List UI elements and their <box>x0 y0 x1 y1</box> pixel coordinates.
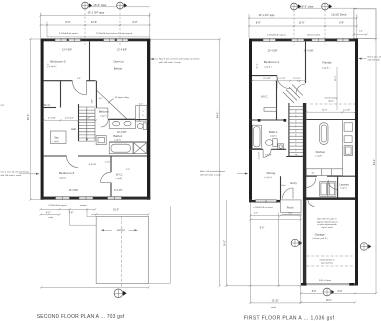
svg-text:Bedroom-2: Bedroom-2 <box>50 60 66 64</box>
bath-2 tub <box>109 143 133 154</box>
bottom exterior wall (second floor) <box>41 197 151 200</box>
wall laundry west <box>337 176 339 200</box>
svg-text:gypsum drywall. typical: gypsum drywall. typical <box>317 220 338 223</box>
bath-2 vanity counter <box>109 119 135 128</box>
svg-text:Stor: Stor <box>54 135 59 139</box>
stair diagonal tread 2 <box>286 90 297 101</box>
svg-text:2'-0": 2'-0" <box>254 213 259 215</box>
wall hall/laundry north <box>306 175 317 177</box>
top wall window F4 <box>337 38 349 41</box>
garage door line <box>307 283 350 285</box>
roof-below dashed centerline <box>120 216 122 288</box>
svg-text:Note: 5/8" fire-code 'X': Note: 5/8" fire-code 'X' <box>317 218 337 221</box>
inner vertical dim line x=226.5 <box>226 200 228 286</box>
bottom wall window W6 <box>79 197 93 200</box>
grid bubble B (garage right) <box>360 243 368 251</box>
svg-text:Bath-2: Bath-2 <box>114 134 123 138</box>
dim row over hall <box>44 119 96 121</box>
svg-text:9'-0": 9'-0" <box>260 228 265 230</box>
stair diagonal tread 1 <box>283 92 294 103</box>
svg-text:min. 3 1/2 x 14 unit wall furr: min. 3 1/2 x 14 unit wall furring <box>1 170 30 173</box>
outer vertical dim 44'-2 (left outer) <box>219 39 221 286</box>
svg-text:26'-0" clear: 26'-0" clear <box>301 4 314 8</box>
garage overhead door dashed 2 <box>307 265 355 267</box>
porch dim row 1 <box>250 215 300 217</box>
svg-text:Porch: Porch <box>287 205 294 209</box>
svg-text:Entry: Entry <box>290 181 297 185</box>
dim extension right (x=356.8) <box>356 14 358 38</box>
balcony west line <box>95 81 97 108</box>
deck outline 12x10 <box>354 9 376 39</box>
interior wall Bedroom-3 / WIC divider <box>110 156 112 172</box>
svg-text:4'-10 1/2": 4'-10 1/2" <box>65 117 74 119</box>
interior wall Bedroom-2 south <box>44 80 73 82</box>
svg-text:18' high ceiling: 18' high ceiling <box>114 97 129 99</box>
bath-2 shower <box>134 143 147 154</box>
bath-2 wall above tub <box>109 141 147 143</box>
svg-text:with 2x8 studs 1 comp: with 2x8 studs 1 comp <box>1 174 22 177</box>
svg-text:30'-0": 30'-0" <box>26 114 30 121</box>
svg-text:at walls adjoining with: at walls adjoining with <box>317 223 336 226</box>
balcony corner line <box>107 108 109 119</box>
right exterior wall (first floor) <box>355 39 358 286</box>
outer vertical dim line 30'-0 (left of second floor) <box>30 39 32 200</box>
svg-text:( clg 9 (: ( clg 9 ( <box>49 66 57 68</box>
wall Bath-1 north <box>249 119 286 121</box>
door arc Bedroom-1 <box>277 76 290 89</box>
kitchen island <box>320 123 328 145</box>
svg-text:open position: open position <box>321 261 333 264</box>
wall Kitchen north <box>306 119 355 121</box>
svg-text:W.I.C.: W.I.C. <box>44 103 51 107</box>
svg-text:2-2/6x4/6 dh egress: 2-2/6x4/6 dh egress <box>267 33 287 36</box>
bath-2 sink 2 <box>124 121 131 126</box>
grid bubble 1 (first floor) with cross <box>291 3 298 10</box>
roof-below arrow right <box>129 229 138 231</box>
stair east stringer <box>94 108 96 141</box>
svg-text:Balcony: Balcony <box>99 110 110 114</box>
svg-text:2-2/6x4/6 dh egress: 2-2/6x4/6 dh egress <box>59 32 79 35</box>
bath-1 corner sink <box>278 144 284 150</box>
svg-text:12'-10": 12'-10" <box>272 301 279 303</box>
note arrow left of first floor <box>237 173 248 175</box>
svg-text:( clg 8 (: ( clg 8 ( <box>59 177 67 179</box>
bottom dim row 2 <box>41 214 60 216</box>
stair diagonal tread 4 <box>292 85 303 96</box>
grid bubble A arrow <box>299 241 302 245</box>
grid dashed line C (x=294) <box>293 10 295 45</box>
dim row kitchen <box>306 111 355 113</box>
svg-text:Bedroom-3: Bedroom-3 <box>59 171 75 175</box>
svg-text:4'-0 3/4": 4'-0 3/4" <box>48 117 56 119</box>
svg-text:clg fire rated: clg fire rated <box>321 226 332 229</box>
svg-text:1'-6": 1'-6" <box>359 31 363 33</box>
svg-text:6'-0 3/4": 6'-0 3/4" <box>114 190 123 192</box>
connector rect-bottom to extension <box>149 282 171 284</box>
svg-text:( clg 8 (: ( clg 8 ( <box>53 141 60 143</box>
svg-text:8'-8": 8'-8" <box>133 21 138 24</box>
stair arrowhead (second floor) <box>86 139 88 142</box>
grid bubble 1F arrow <box>298 4 301 9</box>
note arrow (left wall note) <box>19 173 39 175</box>
kitchen sink right <box>344 136 352 143</box>
svg-text:roof bel: roof bel <box>117 229 125 232</box>
svg-text:25'-1 3/4" appr: 25'-1 3/4" appr <box>88 11 105 15</box>
svg-text:44'-2": 44'-2" <box>216 112 220 119</box>
svg-text:( d'num, part R (: ( d'num, part R ( <box>313 237 328 240</box>
diagonal 18ft-ceiling line <box>97 90 128 119</box>
svg-text:element jamb: element jamb <box>307 33 321 36</box>
door arc Bedroom-3 <box>67 156 79 168</box>
svg-text:4'-2": 4'-2" <box>139 104 143 106</box>
svg-text:( clg 9 (: ( clg 9 ( <box>315 156 322 158</box>
porch dim row 2 <box>250 219 300 221</box>
linen closet by stair <box>96 136 106 145</box>
svg-text:12x10 Deck: 12x10 Deck <box>331 13 347 17</box>
hall door arc B <box>328 180 338 190</box>
bottom dim row 1 (second floor) <box>41 208 95 210</box>
interior wall Bedroom-2 / Open-to-Below divider <box>89 41 91 80</box>
stair west stringer <box>78 104 80 141</box>
stair/garage west wall <box>303 103 306 285</box>
wall post A <box>258 119 261 122</box>
svg-text:8'-0 5/8": 8'-0 5/8" <box>265 154 272 156</box>
interior wall Bedroom-1/Family divider <box>305 41 307 83</box>
svg-text:2'-1 1/2": 2'-1 1/2" <box>278 78 286 80</box>
svg-text:12'-4 5/8": 12'-4 5/8" <box>267 50 277 53</box>
svg-text:8'-8": 8'-8" <box>312 291 317 293</box>
svg-text:4'-0 3/4": 4'-0 3/4" <box>263 78 271 80</box>
svg-text:with 2x8 studs 1 comp: with 2x8 studs 1 comp <box>159 61 181 64</box>
bottom grid bubble arrow <box>123 291 127 296</box>
overall bottom dim line (second floor) <box>41 286 149 288</box>
grid line segment between bubbles <box>89 6 117 8</box>
storage closet (second floor) <box>51 131 67 144</box>
svg-text:2'-10": 2'-10" <box>105 161 111 163</box>
svg-text:( clg 9 (: ( clg 9 ( <box>264 177 272 179</box>
dining window <box>256 200 277 203</box>
svg-text:8'-0": 8'-0" <box>288 213 293 215</box>
bath-1 toilet tank <box>273 139 277 147</box>
laundry washer <box>320 182 328 197</box>
svg-text:window: window <box>80 205 87 207</box>
grid bubble C (garage door) <box>323 288 331 296</box>
wall post B <box>284 119 287 122</box>
svg-text:( clg 8 (: ( clg 8 ( <box>340 188 347 190</box>
svg-text:10'-4 5/8": 10'-4 5/8" <box>69 190 79 192</box>
bottom wall dining (first floor) <box>249 200 281 203</box>
left exterior wall (first floor) <box>249 39 252 200</box>
door arc WIC-2 <box>101 172 111 182</box>
svg-text:Garage: Garage <box>315 233 325 237</box>
svg-text:5'-0": 5'-0" <box>126 169 130 171</box>
svg-text:New 3 1/2 x 14: New 3 1/2 x 14 <box>368 56 381 58</box>
svg-text:12'-8": 12'-8" <box>298 22 304 25</box>
svg-text:flush: flush <box>282 185 286 187</box>
entry door arc <box>283 188 294 199</box>
top wall window F3 <box>312 38 325 41</box>
svg-text:12'-4 5/8": 12'-4 5/8" <box>62 49 72 52</box>
garage entry door arc <box>308 200 315 207</box>
interior wall Bedroom-1 south <box>252 75 277 77</box>
balcony rail <box>96 107 108 109</box>
dim line over entry closets <box>252 80 306 82</box>
wall stair south <box>286 156 303 158</box>
top wall window W3 <box>104 38 116 41</box>
extension line from left-plan wall to 44'-2 dim <box>150 38 219 40</box>
svg-text:8'-8": 8'-8" <box>338 291 343 293</box>
bath-2 north wall / vanity line <box>108 119 147 121</box>
bath-1 toilet bowl <box>266 140 273 146</box>
top exterior wall (first floor) <box>249 39 358 42</box>
svg-text:( clg 8 (: ( clg 8 ( <box>116 178 123 180</box>
bath-2 sink 1 <box>113 121 120 126</box>
garage overhead door dashed 1 <box>307 255 355 257</box>
svg-text:8'-8": 8'-8" <box>256 22 261 25</box>
stair diagonal tread 3 <box>289 87 300 98</box>
svg-text:Kitchen: Kitchen <box>316 150 326 154</box>
svg-text:( clg 9 (: ( clg 9 ( <box>322 67 330 69</box>
svg-text:Bath-1: Bath-1 <box>269 130 278 134</box>
outer dim extension top-left <box>31 38 41 40</box>
grid line segment 2F <box>329 7 357 9</box>
svg-text:9'-8": 9'-8" <box>1 105 5 107</box>
note arrow (LVL header, right of second floor) <box>151 58 158 60</box>
bottom dim row A (first floor) <box>227 285 301 287</box>
stair center rail <box>86 107 88 141</box>
left exterior wall (second floor) <box>41 39 44 200</box>
window header note line <box>47 36 150 38</box>
svg-text:Note: 2x6 stud wall framed: Note: 2x6 stud wall framed <box>200 170 225 173</box>
svg-text:with 5x8 studs 1 camp: with 5x8 studs 1 camp <box>200 174 221 177</box>
stair treads (first floor) <box>289 106 303 108</box>
porch step line <box>282 213 300 215</box>
svg-text:Open to: Open to <box>113 59 124 63</box>
grid bubble C arrow <box>331 290 334 294</box>
family interior dim line <box>336 67 338 110</box>
shaft room (second floor) <box>136 106 147 121</box>
kitchen range <box>344 146 352 156</box>
svg-text:24'-2": 24'-2" <box>224 240 227 246</box>
svg-text:2-2/6x4/6 dh egress: 2-2/6x4/6 dh egress <box>48 204 66 207</box>
svg-text:14 R: 14 R <box>91 99 93 104</box>
svg-text:10'-9": 10'-9" <box>322 109 328 111</box>
svg-text:44'-2": 44'-2" <box>372 159 376 166</box>
dim segments row (first floor) <box>249 25 357 27</box>
svg-text:above: above <box>328 100 334 102</box>
roof-below outline (second floor) <box>96 216 148 283</box>
svg-text:12'-4 5/8": 12'-4 5/8" <box>117 49 127 52</box>
stair dashed guide (first floor) <box>295 110 297 152</box>
interior wall WIC south <box>44 107 56 109</box>
outer dim extension bottom-left <box>31 199 41 201</box>
top wall window W2 <box>69 38 81 41</box>
svg-text:12'-4": 12'-4" <box>257 63 259 69</box>
stair west stringer (1F) <box>288 103 290 157</box>
grid bubble B arrow <box>368 244 371 248</box>
grid line segment 1F <box>298 7 322 9</box>
grid bubble 2 arrow <box>124 3 127 8</box>
connector step line B <box>86 209 88 216</box>
bottom dim row B (first floor) <box>301 292 376 294</box>
stair treads (second floor) <box>79 106 96 108</box>
grid dashed line A (x=85) <box>84 9 86 45</box>
right exterior wall (second floor) <box>147 39 150 200</box>
wall entry/porch <box>280 176 282 200</box>
top wall window F2 <box>292 38 305 41</box>
porch extension line x=300.8 <box>300 213 302 303</box>
svg-text:9'x8' o h door: 9'x8' o h door <box>319 279 332 282</box>
svg-text:a 2/6x2/6 dh w/ trans: a 2/6x2/6 dh w/ trans <box>253 206 272 209</box>
svg-text:W.I.C.: W.I.C. <box>261 96 268 99</box>
svg-text:15'-1 3/4" appr: 15'-1 3/4" appr <box>258 14 274 17</box>
roof-below arrow left <box>101 229 112 231</box>
svg-text:( clg 8 (: ( clg 8 ( <box>270 135 277 137</box>
wall Bath-1 south <box>249 148 263 150</box>
door arc Family <box>296 84 306 94</box>
closet rod WIC-1F <box>264 107 276 111</box>
dim line segments row (second floor) <box>41 24 150 26</box>
deck dim row <box>354 33 367 35</box>
interior wall Bedroom-3 north <box>44 155 67 157</box>
grid bubble 2 (second floor) with cross <box>117 2 124 9</box>
door arc Bath-1 <box>263 149 271 157</box>
svg-text:3'-0": 3'-0" <box>297 81 301 83</box>
svg-text:8'-8": 8'-8" <box>66 21 71 24</box>
bath-1 tub <box>252 125 261 148</box>
garage bottom wall cap right <box>349 283 355 286</box>
interior wall WIC-1F east <box>276 81 278 120</box>
svg-text:12'-8": 12'-8" <box>91 21 97 24</box>
svg-text:18'-0": 18'-0" <box>326 300 332 302</box>
bottom wall window W7 <box>108 197 122 200</box>
note arrow (right of first floor) <box>359 58 367 60</box>
porch extension line x=278.7 <box>278 213 280 286</box>
grid bubble 2 (first floor) with cross <box>322 3 329 10</box>
svg-text:4'-2": 4'-2" <box>46 212 51 214</box>
leader 18' ceiling <box>109 99 114 104</box>
top wall window W4 <box>117 38 129 41</box>
extension line to neighbour dim <box>169 206 171 283</box>
grid bubble 1 (second floor) with cross <box>82 2 89 9</box>
svg-text:Dining: Dining <box>267 171 276 175</box>
grid bubble 2F arrow <box>329 4 332 9</box>
outer vertical dim right (x=376) <box>375 39 377 293</box>
svg-text:with 2x8 studs: with 2x8 studs <box>368 58 381 61</box>
svg-text:Bedroom-1: Bedroom-1 <box>264 60 280 64</box>
grid dashed line B (x=120) <box>119 9 121 45</box>
grid dashed line D (x=325) <box>324 10 326 45</box>
dim extension left (x=249) <box>248 14 250 38</box>
kitchen counter bottom band <box>306 169 342 176</box>
grid bubble 1 arrow <box>89 3 92 8</box>
grid bubble A (garage left) <box>291 239 299 247</box>
bottom dim row C 18'-0 <box>301 301 355 303</box>
bottom grid bubble (second floor) <box>114 289 123 298</box>
laundry dryer <box>328 182 336 197</box>
porch outline <box>281 200 302 213</box>
hall door arc A <box>306 178 316 188</box>
svg-text:15'-0": 15'-0" <box>113 209 119 212</box>
top wall window W1 <box>55 38 67 41</box>
svg-text:W.I.C.: W.I.C. <box>116 172 124 176</box>
connector step line A <box>69 209 71 225</box>
svg-text:Below: Below <box>114 67 123 71</box>
dashed line of framing above <box>310 103 355 105</box>
wall garage north <box>303 197 355 200</box>
svg-text:2'-0": 2'-0" <box>86 117 91 119</box>
svg-text:Family: Family <box>322 61 332 65</box>
bottom dim row D 12'-10 <box>250 302 300 304</box>
svg-text:FIRST FLOOR PLAN A ... 1,036 g: FIRST FLOOR PLAN A ... 1,036 gsf <box>244 316 335 321</box>
top wall window F1 <box>263 38 276 41</box>
dim line 15'-1 3/4 appr (first floor) <box>249 17 357 19</box>
door arc Bedroom-2 <box>72 81 86 95</box>
svg-text:overhead door in: overhead door in <box>319 259 334 261</box>
svg-text:8'-8": 8'-8" <box>339 22 344 25</box>
svg-text:1'-4 5/8": 1'-4 5/8" <box>343 109 351 111</box>
grid line segment right of bubble 2 <box>124 6 150 8</box>
svg-text:Laundry: Laundry <box>339 182 349 186</box>
svg-text:SECOND FLOOR PLAN A ... 703 gs: SECOND FLOOR PLAN A ... 703 gsf <box>37 314 125 320</box>
svg-text:( clg 9 (: ( clg 9 ( <box>264 66 272 68</box>
bath-2 toilet bowl <box>137 124 143 129</box>
dim line 15'-0 (roof below) <box>91 213 149 215</box>
garage bottom wall cap left <box>301 283 307 286</box>
svg-text:line of framing: line of framing <box>325 97 338 99</box>
bottom wall window W5 <box>56 197 70 200</box>
svg-text:( clg 9 (: ( clg 9 ( <box>100 115 107 117</box>
svg-text:2-2/6x4/6 fixed w/tran'sl ver: 2-2/6x4/6 fixed w/tran'sl verify legend <box>96 32 133 35</box>
svg-text:13'-2": 13'-2" <box>335 75 337 81</box>
top exterior wall (second floor) <box>41 39 151 42</box>
svg-text:4'-0": 4'-0" <box>99 98 103 100</box>
bath-2 toilet tank <box>143 123 147 130</box>
svg-text:4'-10 5/8": 4'-10 5/8" <box>258 151 260 159</box>
kitchen counter edge <box>342 120 344 169</box>
svg-text:4'-0 5/8": 4'-0 5/8" <box>88 164 96 166</box>
dim line 25'-1 3/4 appr (second floor) <box>41 15 150 17</box>
svg-text:2'-8": 2'-8" <box>77 78 81 80</box>
bath-2 door arc <box>101 120 109 128</box>
interior wall WIC east <box>60 81 62 108</box>
dim extension line x=47 <box>46 22 48 38</box>
dim extension line left (x=40.6) <box>40 13 42 39</box>
kitchen fridge <box>344 123 352 131</box>
porch extension line x=250.4 <box>249 202 251 303</box>
dim extension line right (x=149.8) <box>149 13 151 39</box>
svg-text:Hall: Hall <box>71 127 76 131</box>
svg-text:New 3 1/2 x 14 LVL unit hanger: New 3 1/2 x 14 LVL unit hanger w/ transm <box>159 57 200 60</box>
